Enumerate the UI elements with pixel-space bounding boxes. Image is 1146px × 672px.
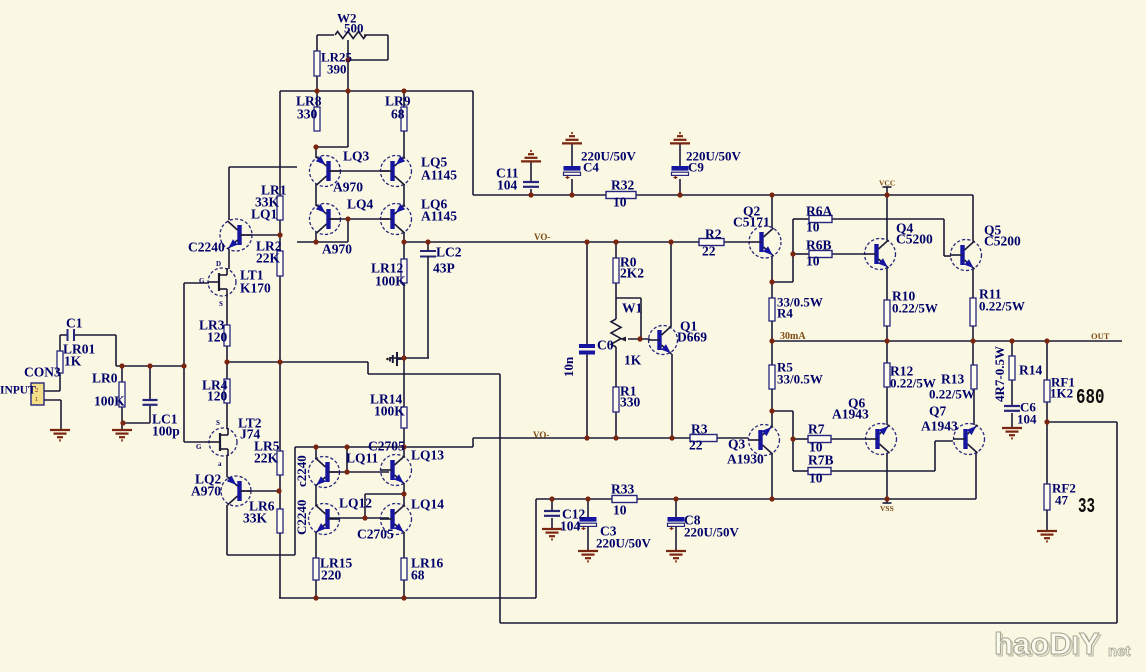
svg-text:LQ1: LQ1 xyxy=(251,207,278,222)
svg-text:R6B: R6B xyxy=(806,238,832,253)
svg-text:Q7: Q7 xyxy=(929,404,947,419)
svg-text:220U/50V: 220U/50V xyxy=(596,535,652,550)
svg-text:C5200: C5200 xyxy=(984,234,1021,249)
svg-text:OUT: OUT xyxy=(1091,331,1110,341)
svg-text:C5171: C5171 xyxy=(733,215,770,230)
svg-text:K170: K170 xyxy=(240,281,271,296)
svg-text:VO-: VO- xyxy=(533,430,549,440)
svg-text:haoDIY: haoDIY xyxy=(994,626,1100,661)
svg-text:30mA: 30mA xyxy=(780,331,806,342)
svg-text:10: 10 xyxy=(809,471,823,486)
svg-text:43P: 43P xyxy=(433,261,455,276)
svg-text:100p: 100p xyxy=(152,424,180,439)
svg-text:LQ13: LQ13 xyxy=(411,448,444,463)
svg-text:10: 10 xyxy=(613,195,627,210)
svg-text:500: 500 xyxy=(344,20,364,35)
svg-text:A1943: A1943 xyxy=(832,407,869,422)
svg-text:68: 68 xyxy=(391,107,405,122)
svg-text:104: 104 xyxy=(560,519,581,534)
svg-text:C9: C9 xyxy=(688,159,704,174)
svg-text:10n: 10n xyxy=(561,356,576,377)
svg-text:100K: 100K xyxy=(94,394,125,409)
svg-text:VSS: VSS xyxy=(880,504,894,513)
svg-text:22K: 22K xyxy=(254,451,279,466)
svg-text:120: 120 xyxy=(207,330,228,345)
svg-text:330: 330 xyxy=(297,107,318,122)
svg-text:220: 220 xyxy=(321,568,342,583)
svg-text:R2: R2 xyxy=(705,227,722,242)
svg-text:390: 390 xyxy=(327,61,347,76)
svg-text:4R7-0.5W: 4R7-0.5W xyxy=(992,346,1007,402)
svg-text:100K: 100K xyxy=(375,274,406,289)
svg-text:33K: 33K xyxy=(243,511,268,526)
svg-text:C2240: C2240 xyxy=(294,500,309,535)
svg-text:680: 680 xyxy=(1076,387,1105,410)
svg-text:R4: R4 xyxy=(777,305,793,320)
svg-text:330: 330 xyxy=(620,395,641,410)
svg-text:G: G xyxy=(199,277,205,285)
svg-text:1K2: 1K2 xyxy=(1050,385,1073,400)
svg-text:104: 104 xyxy=(497,178,518,193)
svg-text:10: 10 xyxy=(806,220,820,235)
svg-text:R13: R13 xyxy=(941,372,964,387)
svg-text:LQ3: LQ3 xyxy=(343,149,370,164)
svg-text:R7: R7 xyxy=(808,422,825,437)
svg-text:R7B: R7B xyxy=(808,453,834,468)
svg-text:INPUT: INPUT xyxy=(0,384,36,396)
svg-text:A970: A970 xyxy=(191,484,221,499)
svg-text:47: 47 xyxy=(1055,492,1069,507)
svg-text:net: net xyxy=(1108,643,1131,660)
svg-text:LR0: LR0 xyxy=(92,371,118,386)
svg-text:LQ4: LQ4 xyxy=(347,197,374,212)
svg-text:S: S xyxy=(219,300,223,308)
svg-text:C0: C0 xyxy=(597,338,614,353)
svg-text:22: 22 xyxy=(702,244,716,259)
svg-text:2K2: 2K2 xyxy=(620,266,644,281)
svg-text:10: 10 xyxy=(613,503,627,518)
svg-text:LQ14: LQ14 xyxy=(411,497,444,512)
svg-text:68: 68 xyxy=(411,568,425,583)
svg-text:C2240: C2240 xyxy=(188,240,225,255)
svg-text:A970: A970 xyxy=(322,242,352,257)
svg-text:0.22/5W: 0.22/5W xyxy=(892,300,938,315)
svg-text:C1: C1 xyxy=(66,316,83,331)
svg-text:CON3: CON3 xyxy=(24,365,61,380)
svg-text:VO-: VO- xyxy=(534,232,550,242)
svg-text:LQ12: LQ12 xyxy=(339,496,372,511)
svg-text:LC2: LC2 xyxy=(436,245,462,260)
svg-text:120: 120 xyxy=(207,389,228,404)
svg-text:R14: R14 xyxy=(1019,363,1042,378)
svg-text:c2240: c2240 xyxy=(294,455,309,487)
svg-text:C5200: C5200 xyxy=(896,232,933,247)
svg-text:22: 22 xyxy=(689,438,703,453)
svg-text:S: S xyxy=(216,419,220,427)
svg-text:R6A: R6A xyxy=(806,204,832,219)
svg-text:1: 1 xyxy=(35,396,38,403)
svg-text:0.22/5W: 0.22/5W xyxy=(979,298,1025,313)
svg-text:Q3: Q3 xyxy=(728,437,746,452)
svg-text:220U/50V: 220U/50V xyxy=(684,524,740,539)
svg-text:33: 33 xyxy=(1078,496,1095,519)
svg-text:22K: 22K xyxy=(256,251,281,266)
svg-text:33/0.5W: 33/0.5W xyxy=(777,371,823,386)
svg-text:A970: A970 xyxy=(333,180,363,195)
svg-text:W1: W1 xyxy=(622,301,643,316)
svg-text:VCC: VCC xyxy=(879,179,895,188)
svg-text:C4: C4 xyxy=(583,159,599,174)
svg-text:1K: 1K xyxy=(624,353,642,368)
svg-text:G: G xyxy=(196,443,202,451)
svg-text:100K: 100K xyxy=(374,404,405,419)
svg-text:A1943: A1943 xyxy=(921,419,958,434)
svg-text:R32: R32 xyxy=(611,178,634,193)
svg-text:A1145: A1145 xyxy=(421,168,457,183)
svg-text:A1930: A1930 xyxy=(727,452,764,467)
svg-text:R3: R3 xyxy=(691,422,708,437)
svg-text:D669: D669 xyxy=(677,330,707,345)
svg-text:104: 104 xyxy=(1017,411,1037,426)
svg-text:10: 10 xyxy=(806,254,820,269)
svg-text:a: a xyxy=(218,460,222,468)
svg-text:D: D xyxy=(216,260,221,268)
svg-text:A1145: A1145 xyxy=(421,209,457,224)
svg-text:R33: R33 xyxy=(611,482,634,497)
svg-text:1K: 1K xyxy=(64,354,82,369)
svg-text:LQ11: LQ11 xyxy=(346,451,379,466)
svg-text:0.22/5W: 0.22/5W xyxy=(929,386,975,401)
svg-text:C2705: C2705 xyxy=(357,527,394,542)
